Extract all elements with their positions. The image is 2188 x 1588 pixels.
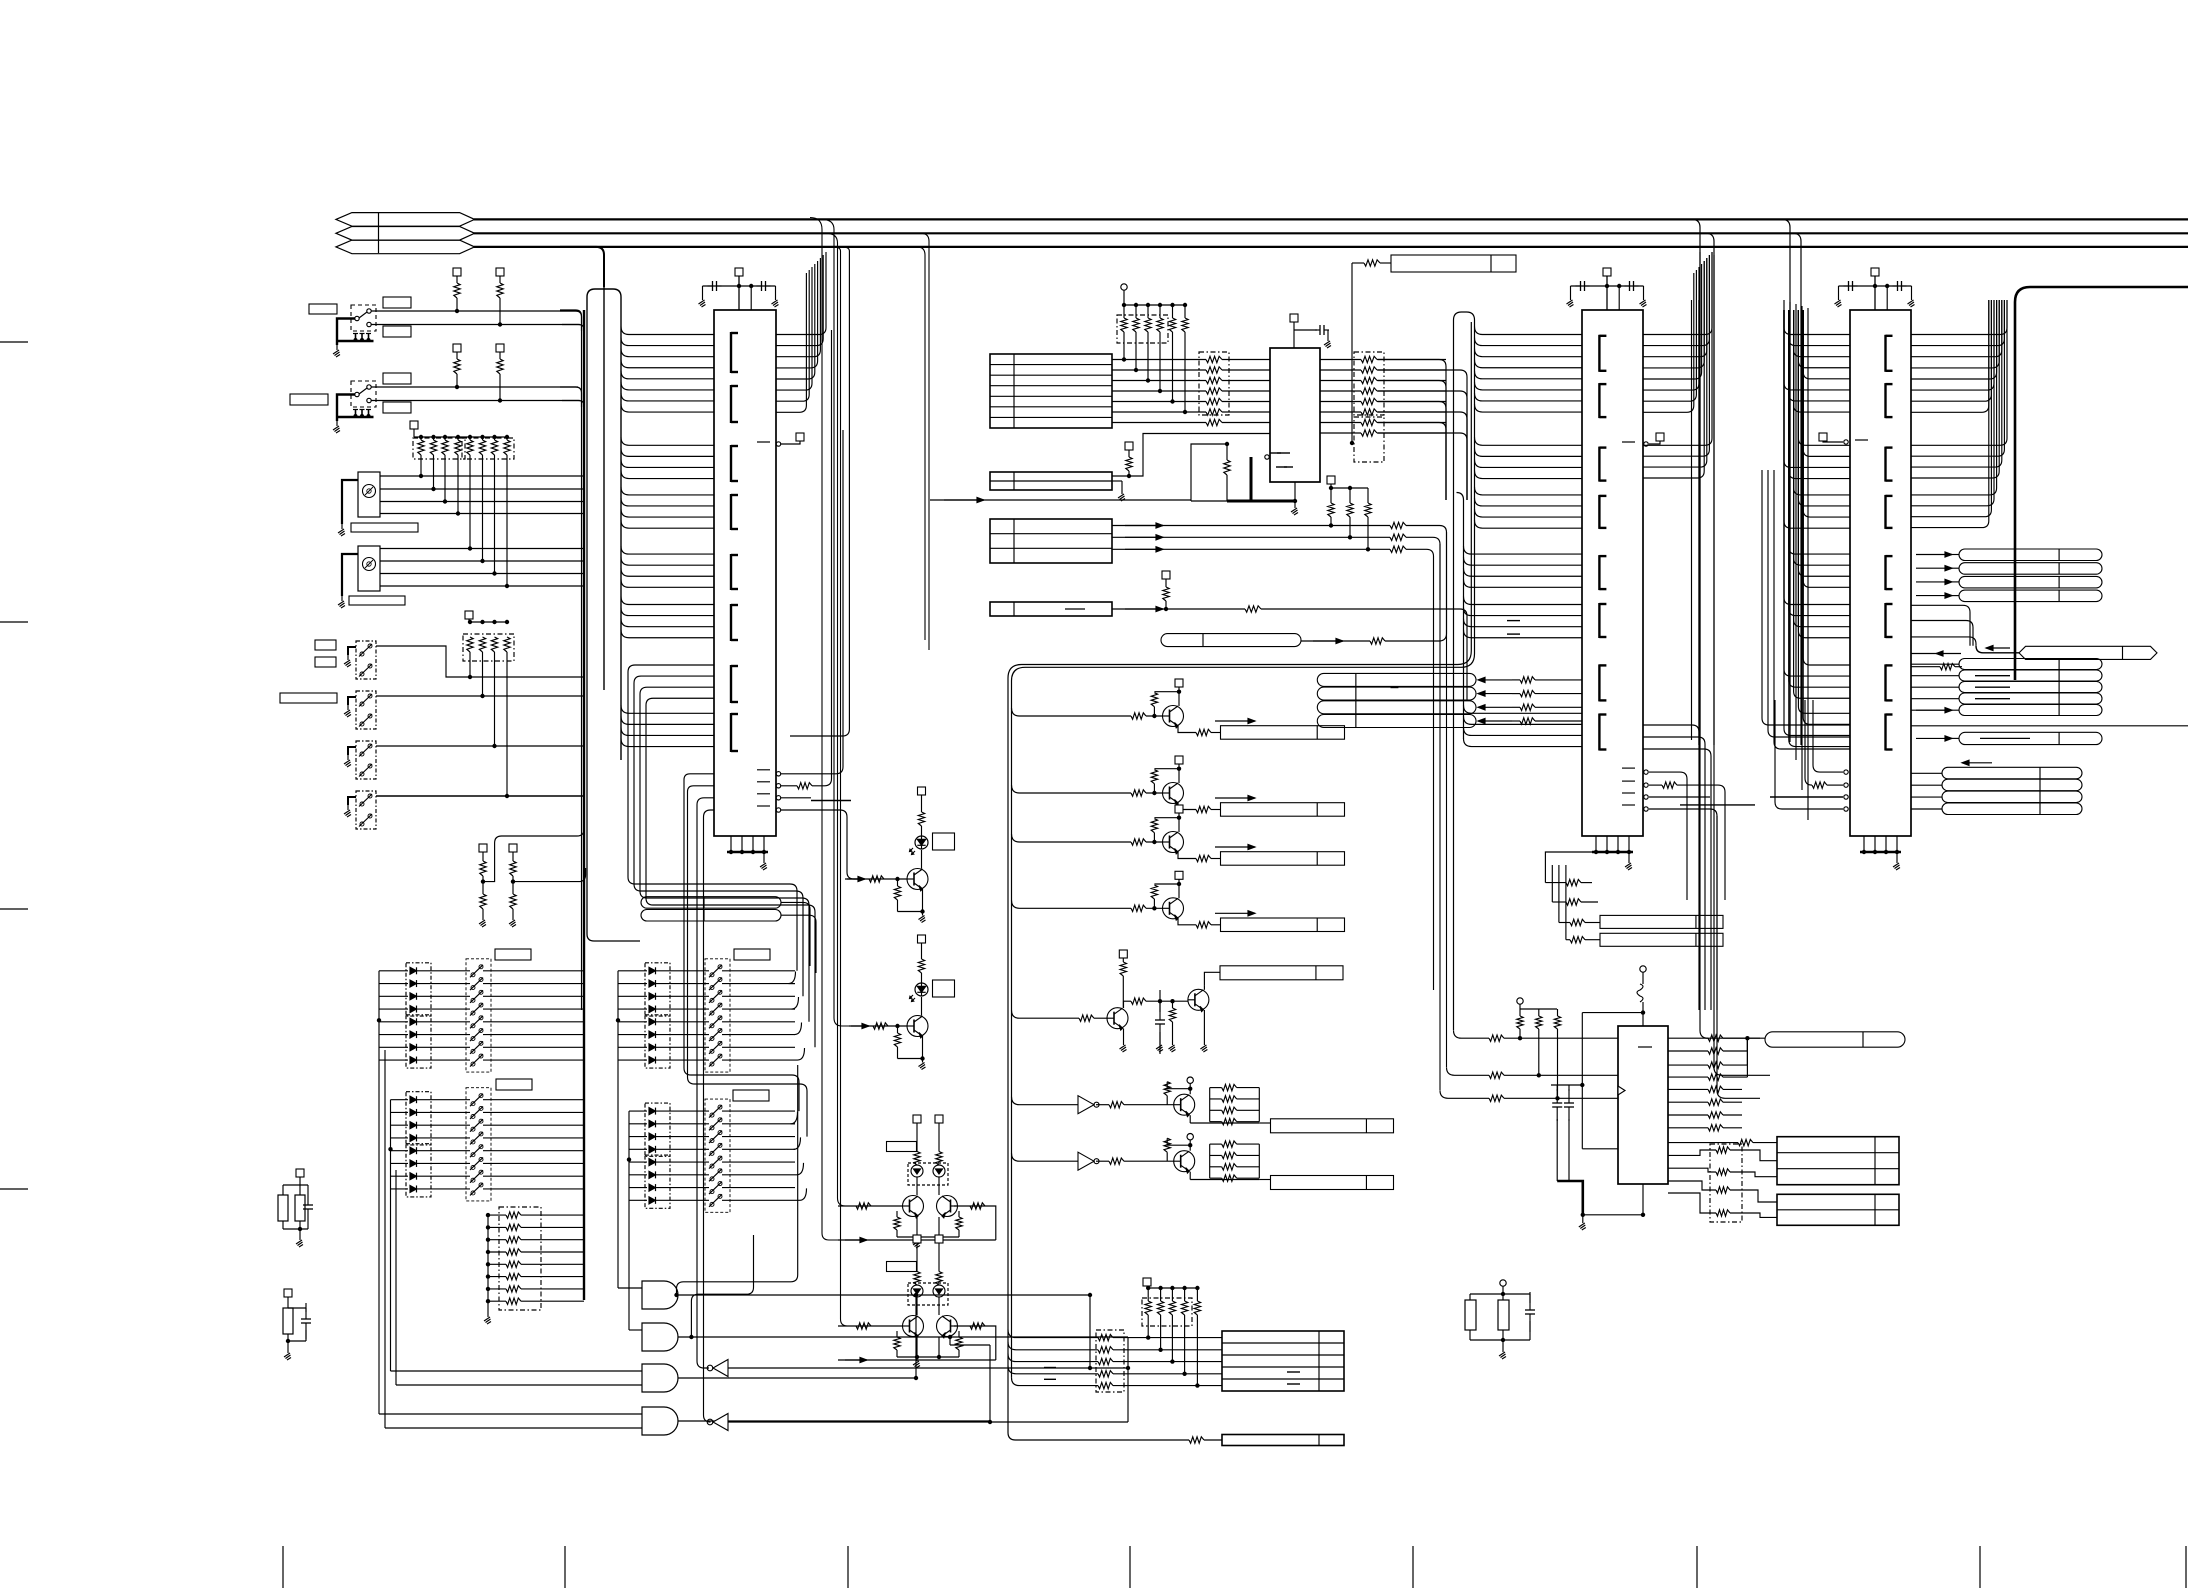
wire bus drops to IC4 trunk [1760,219,1801,745]
gate input wires from matrices [379,1020,642,1428]
U1 enable pin with square terminal [757,433,804,446]
pull-up network RN3 above CN1 [1117,284,1188,414]
left support wiring of U5 [1551,1010,1645,1230]
wire from CN2 up to U2 [1112,434,1270,477]
rotary encoder SW-A [338,455,585,536]
label boxes (mid-left) [280,640,337,703]
center trunk (x 1453-1474) with S route to bottom trunk [1008,312,1475,1440]
wire bus drop to left trunk [560,247,604,287]
wires from U1 lower-left pins to matrix M4 [684,774,807,1137]
switch block S2 [290,373,584,433]
resistor network RN1 (8 resistors, dash-dot boxes) [410,421,514,459]
long wire with arrow (left, y=500) [930,497,1191,502]
gate interconnect wires [916,1295,1128,1424]
wires under U1 from left pins to matrix M3 [628,665,815,1047]
thick net to right edge (top right) [2015,287,2188,680]
wire fan into U1 left pins [621,327,714,747]
left trunk vertical bus [560,289,640,1300]
U3 bottom power stubs [1592,836,1633,870]
pull-up network RN7 above CN7 [1142,1278,1201,1388]
diode-switch matrix M1 [377,949,584,1072]
U4 bottom power stubs [1860,836,1901,870]
wire bus drops to IC3 trunk [1670,219,1714,745]
AND gate G1 [642,1281,1092,1309]
stadium stack left of IC3 (4) with arrows+resistors [1317,673,1582,727]
pull-up trio above CN3 wires [1327,476,1371,552]
net stadium NL1 + arrow + resistor [1161,560,1447,647]
power cluster above U4 [1835,268,1915,310]
resistor network RN5 (right of U2) [1320,352,1446,462]
transistor row Q8 [1012,805,1345,865]
RC network RC3 (bottom center) [1465,1280,1535,1359]
U2 bottom wiring (thick ground path) [1191,442,1298,515]
AND gate G2 [642,1323,952,1351]
connector CN4 (1 row) [990,571,1467,700]
stadium group SG4 (4, lower) [1911,760,2082,814]
wire fan U4 left pins [1784,310,1850,747]
connector CN6 (2 rows) [1777,1194,1899,1225]
U1 bottom-right pins with net stubs [757,330,863,879]
DIP switch group SW-C (4 sections) [344,641,584,829]
transistor row Q9 [1012,871,1345,931]
wire fan from U2 rows into center trunk [1378,360,1467,501]
diode-switch matrix M2 [388,1079,584,1201]
transistor row Q7a [1012,679,1345,739]
power cluster above U1 [699,268,779,310]
net dash marks left of IC3 [1507,621,1520,635]
wire fan U1 right pins to bus [776,252,826,412]
wires from trunk to CN7 [1008,1330,1222,1392]
bus line 1 [474,218,2188,220]
LED driver Q1 cluster [845,787,955,923]
pull-up resistors R-S1 [453,268,504,327]
transistor pair Q10/Q11 with caps [1012,950,1344,1054]
trunk verticals feeding U4 [1784,300,1808,820]
bus entry chevrons (3 stacked) [336,213,475,254]
connector CN5 (3 rows) [1777,1137,1899,1185]
resistor dividers R-mid (two with square terminals) [479,829,586,927]
U3 enable pin [1622,433,1664,446]
long wire right edge y=725.8 [1911,725,2188,727]
rotary encoder SW-B [338,455,585,608]
stadium group SG2 (5) [1911,659,2102,716]
wire stubs M3/M4 right ends [789,972,807,1201]
pull-up trio for U5 [1517,998,1561,1101]
wire branches from gate outputs up to matrix area [674,1065,797,1339]
big stadium NL3 right of U5 [1765,1032,1905,1047]
resistor network RN4 (series, 7x) [1112,352,1270,426]
RC network RC1 (left) [278,1169,313,1247]
dual LED driver Q3/Q4 cluster [838,1115,996,1248]
wire bus drops near x=925 [900,233,929,650]
vertical wires IC3-right down to U5 [1692,252,1771,1098]
wire fan U3 right pins to verticals [1643,252,1712,478]
resistor network RN6 (8, dash-dot) [484,1207,584,1324]
U4 enable pin w/ square [1819,433,1868,444]
diode-switch matrix M4 [627,1090,795,1212]
AND gate G3 [642,1364,918,1392]
stadium group SG1 (4) right of U4 [1916,549,2102,602]
U3 right lower pins fan down [1643,725,1711,1010]
wire fan U4 right pins to thick trunk [1911,300,2007,528]
RC network RC2 (left lower) [283,1289,311,1360]
switch block S1 (top-left) [309,297,584,357]
inductor + terminal above U5 [1637,966,1646,1026]
buffer+transistor row Q12 [1012,1077,1394,1133]
connector CN3 (3 rows) with arrows [990,519,1447,990]
IC U1 (tall block) [714,310,776,836]
stadium pair NLP (center) [641,897,816,973]
verticals below U3 [1545,852,1598,940]
wire bus drops near x=830 [810,218,853,1327]
edge tick marks [0,342,2186,1588]
buffer+transistor row Q13 [1012,1134,1394,1190]
wires into U5 with resistors [1440,1030,1618,1101]
transistor row Q7b [1012,756,1345,816]
bus line 2 [474,232,2188,234]
dual LED driver Q5/Q6 cluster [838,1235,996,1368]
power cluster above U3 [1567,268,1647,310]
U5 lower outputs to connectors [1668,1139,1777,1222]
LED driver Q2 cluster [849,935,955,1070]
pull-up resistors R-S2 [453,344,504,403]
connector CN2 (2 rows) [990,442,1133,501]
U1 bottom power stubs and ground [727,836,768,870]
inverter N1 [707,1360,1130,1377]
net labels below U3 (2 rect) [1559,915,1723,946]
net label + resistor at top center [1350,255,1516,445]
U5 right outputs with resistors [1668,1035,1765,1131]
wire + resistor to CN8 [1189,1435,1344,1446]
IC U5 [1618,1026,1668,1184]
diode-switch matrix M3 [616,949,795,1072]
bus line 3 [474,246,2188,248]
U4 bottom-left pins [1762,470,1850,811]
IC U2 [1270,348,1320,482]
wire inner trunk below U1 (to inverters) [697,798,714,1422]
IC U3 (tall block) [1582,310,1643,836]
power for U2 [1290,314,1331,348]
stadium pointed NL2 with arrows [1911,605,2157,670]
secondary trunk hook for U3 lower pins [1457,493,1464,740]
wire fan from center trunk to IC3 left pins [1457,327,1583,747]
wire vertical x849 from bus to U1 side [790,247,849,736]
stadium single SG3 [1916,732,2102,744]
U3 bottom-right pins with stubs [1622,768,1755,1010]
inverter N2 [707,1414,1128,1431]
connector CN7 (5 rows) [1222,1331,1344,1391]
connector CN1 (7 rows) [990,354,1112,428]
IC U4 (tall block) [1850,310,1911,836]
pull-up resistor network RN2 (4 in dash-dot box) [463,611,514,661]
AND gate G4 [642,1407,990,1435]
